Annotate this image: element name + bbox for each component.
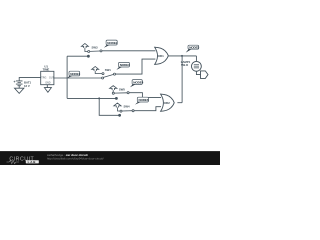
svg-text:OR2: OR2 bbox=[164, 101, 171, 105]
svg-text:OR1: OR1 bbox=[158, 54, 165, 58]
svg-text:SW3: SW3 bbox=[92, 46, 99, 50]
svg-text:NODE1: NODE1 bbox=[70, 72, 80, 76]
svg-text:SW4: SW4 bbox=[124, 105, 131, 109]
svg-text:SW5: SW5 bbox=[119, 87, 126, 91]
svg-text:SW1: SW1 bbox=[105, 68, 112, 72]
svg-text:NODE5: NODE5 bbox=[189, 46, 199, 50]
svg-text:NODE2: NODE2 bbox=[107, 41, 117, 45]
svg-text:http://circuitlab.com/c6zp94t/: http://circuitlab.com/c6zp94t/car-door-c… bbox=[47, 156, 104, 160]
svg-text:12 V: 12 V bbox=[24, 84, 30, 88]
svg-text:TIME: TIME bbox=[43, 67, 50, 71]
svg-text:NODE6: NODE6 bbox=[139, 98, 149, 102]
svg-text:NODE3: NODE3 bbox=[120, 63, 130, 67]
svg-text:GND: GND bbox=[45, 81, 51, 84]
svg-text:NODE4: NODE4 bbox=[133, 80, 143, 84]
svg-text:TRG: TRG bbox=[41, 77, 46, 80]
svg-text:5W-D: 5W-D bbox=[181, 63, 188, 67]
svg-text:LAB: LAB bbox=[28, 160, 37, 164]
svg-text:OUT: OUT bbox=[49, 77, 55, 80]
